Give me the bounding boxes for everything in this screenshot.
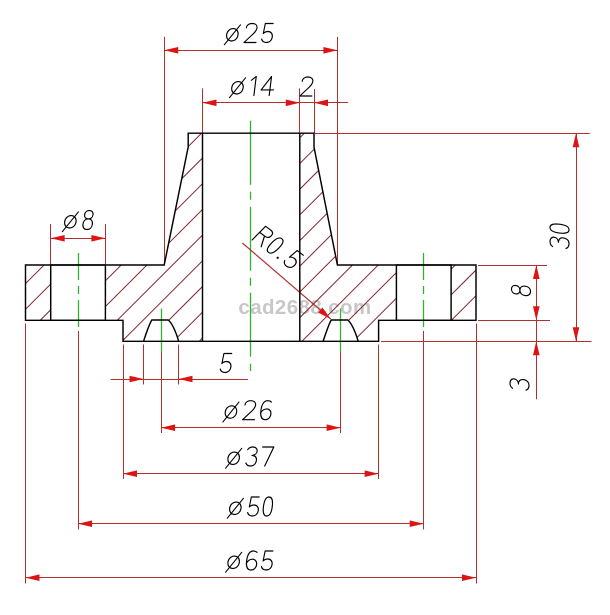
dimension 8 xyxy=(536,265,538,320)
extension lines dia65 xyxy=(25,324,27,584)
dimension dia26 xyxy=(161,427,341,429)
label 3 xyxy=(510,378,529,391)
extension lines dim5 xyxy=(143,345,145,385)
section hatching xyxy=(0,120,610,350)
extension line neck top right xyxy=(315,133,590,135)
label dia8 xyxy=(62,211,94,232)
right groove profile xyxy=(323,320,358,341)
label dia37 xyxy=(226,447,274,468)
extension lines dia37 xyxy=(123,345,125,480)
centerline right groove xyxy=(340,309,342,352)
leader R0.5 xyxy=(242,243,330,319)
flange outline right half xyxy=(300,133,476,341)
label 30 xyxy=(550,223,569,249)
left bolt hole walls xyxy=(51,265,106,320)
extension lines dim8 right xyxy=(478,265,547,267)
right bolt hole walls xyxy=(396,265,451,320)
left groove profile xyxy=(144,320,179,341)
extension lines dia14 xyxy=(202,88,204,133)
dimension dia65 xyxy=(26,577,477,579)
extension lines dia25 xyxy=(164,37,166,265)
label dia25 xyxy=(224,24,274,45)
dimension 30 xyxy=(576,133,578,341)
dimension 5 xyxy=(111,379,249,381)
label 2 xyxy=(300,77,314,96)
label dia50 xyxy=(227,497,273,518)
neck top far edge xyxy=(203,132,300,134)
extension lines dia26 xyxy=(161,352,163,434)
dimension dia14 xyxy=(203,102,300,104)
boss bottom far edge xyxy=(203,340,300,342)
flange outline left half xyxy=(26,133,203,341)
centerline right bolt hole xyxy=(423,253,425,331)
dimension dia50 xyxy=(78,523,424,525)
centerline left groove xyxy=(161,309,163,352)
label 5 xyxy=(220,354,233,373)
dimension dia37 xyxy=(123,473,379,475)
label R0.5 xyxy=(252,226,304,269)
label dia14 xyxy=(229,77,275,98)
centerline main axis xyxy=(250,121,252,371)
label dia26 xyxy=(223,401,273,422)
extension line boss bottom right xyxy=(381,341,592,343)
extension lines dia8 xyxy=(50,224,52,265)
dimension dia25 xyxy=(164,50,337,52)
dimension 2 xyxy=(300,102,348,104)
label dia65 xyxy=(226,551,274,572)
label 8 xyxy=(512,284,531,296)
centerline left bolt hole xyxy=(78,253,80,331)
dimension 3 xyxy=(536,320,538,399)
extension lines dia50 xyxy=(78,331,80,530)
extension line dim2 xyxy=(314,89,316,133)
dimension dia8 xyxy=(51,238,106,240)
svg-text:cad2688.com: cad2688.com xyxy=(238,296,371,319)
